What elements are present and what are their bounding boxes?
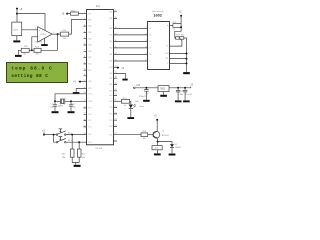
wire R15 left to ground: [18, 50, 21, 54]
wire resistor bottoms join: [72, 157, 79, 164]
ground C2: [68, 111, 75, 113]
wire LCD K to ground: [170, 63, 187, 72]
svg-text:C1: C1: [50, 104, 52, 106]
svg-text:5: 5: [84, 37, 85, 39]
wire +5 to LM35 top: [16, 9, 18, 23]
svg-text:RB1: RB1: [109, 54, 112, 56]
ground LED: [127, 117, 134, 119]
capacitor C4 100n: [176, 88, 180, 100]
capacitor C3 4700u/25: [144, 88, 149, 100]
svg-text:34: 34: [115, 53, 117, 55]
svg-text:RB3: RB3: [109, 41, 112, 43]
node R12 pot junction: [180, 26, 182, 28]
wire +5 to R11: [67, 13, 70, 15]
wire feedback vertical: [57, 34, 59, 50]
wire LCD backlight A pin: [170, 25, 173, 27]
svg-text:+12: +12: [136, 84, 141, 87]
resistor R14 base: [141, 133, 148, 137]
wire R10 vertical: [71, 135, 73, 149]
wire MCU right +5: [114, 67, 120, 69]
wire MCU VCC pin: [79, 81, 87, 83]
svg-text:1k: 1k: [124, 105, 126, 107]
svg-text:11: 11: [84, 74, 86, 76]
svg-text:RC4: RC4: [109, 120, 112, 122]
ground C4: [175, 100, 182, 102]
svg-text:12: 12: [84, 80, 86, 82]
node junction +5 rail: [16, 13, 18, 15]
switch S1: [56, 134, 58, 136]
svg-text:CIL B4: CIL B4: [95, 148, 102, 150]
potentiometer POT 10k: [176, 37, 184, 40]
capacitor C5 470u/16: [183, 88, 187, 100]
svg-text:RD0: RD0: [88, 134, 91, 136]
svg-text:temp 88.9 C: temp 88.9 C: [11, 66, 52, 72]
svg-text:23: 23: [115, 119, 117, 121]
ground C3: [143, 100, 150, 102]
wire MCU GND pin: [76, 89, 87, 92]
svg-text:R12: R12: [173, 22, 176, 24]
wire branch to S2: [54, 135, 57, 143]
svg-text:18: 18: [84, 119, 86, 121]
ground diode: [169, 154, 176, 156]
svg-text:R14: R14: [142, 131, 145, 133]
svg-text:RB5: RB5: [109, 28, 112, 30]
LED arrows: [133, 104, 136, 107]
transistor T1 BC547: [153, 131, 160, 138]
capacitor C2: [69, 101, 73, 111]
svg-text:RE0: RE0: [88, 57, 91, 59]
ground buzzer: [154, 153, 161, 155]
node +5 LCD: [180, 15, 182, 17]
node gnd column 3: [186, 62, 188, 64]
node C5 tap: [184, 87, 186, 89]
wire +5 transistor stub: [156, 120, 158, 121]
svg-text:17: 17: [84, 113, 86, 115]
svg-text:R10: R10: [62, 153, 65, 155]
wire +12 input rail: [135, 87, 158, 89]
svg-text:RC5: RC5: [109, 114, 112, 116]
wire XTAL1: [55, 94, 87, 102]
svg-text:setting 88 C: setting 88 C: [11, 73, 48, 79]
svg-text:39: 39: [115, 17, 117, 19]
svg-text:7: 7: [84, 50, 85, 52]
svg-text:21: 21: [115, 133, 117, 135]
node crystal right: [70, 100, 72, 102]
wire MCU right gnd pin: [114, 74, 126, 79]
svg-text:zum: zum: [155, 148, 159, 150]
svg-text:30: 30: [115, 77, 117, 79]
LED D2: [129, 105, 133, 109]
wire +5 output stub: [190, 86, 192, 87]
svg-text:16: 16: [84, 106, 86, 108]
wire LCD data bus D7: [114, 47, 148, 49]
ground 7805: [160, 95, 167, 97]
svg-text:OSC2: OSC2: [88, 101, 92, 103]
svg-text:D4: D4: [149, 28, 151, 30]
svg-text:RE2: RE2: [88, 70, 91, 72]
LCD pin numbers left: [145, 27, 147, 62]
ground op-amp V-: [41, 44, 48, 46]
svg-text:6: 6: [84, 43, 85, 45]
wire op-amp output: [52, 33, 60, 35]
wire +5 stub switches: [43, 132, 45, 134]
svg-text:RD5: RD5: [109, 90, 112, 92]
MCU right pin stubs: [114, 12, 118, 141]
ground R15: [15, 55, 22, 57]
svg-text:RD6: RD6: [109, 84, 112, 86]
svg-text:RC2: RC2: [88, 120, 91, 122]
svg-text:2: 2: [84, 18, 85, 20]
node +5 switches: [43, 134, 45, 136]
wire R16 to MCU ADC pin: [69, 20, 87, 35]
node gnd column 1: [186, 53, 188, 55]
svg-text:10k: 10k: [63, 38, 66, 40]
crystal Q1 4MHz: [60, 98, 64, 104]
wire collector to +5: [156, 120, 158, 132]
svg-text:VSS: VSS: [109, 73, 112, 75]
node emitter junction: [157, 141, 159, 143]
svg-text:10k: 10k: [143, 138, 146, 140]
LCD pin names right: [165, 24, 169, 65]
svg-text:11: 11: [145, 27, 147, 29]
svg-text:D1: D1: [175, 144, 177, 146]
svg-text:OSC1: OSC1: [88, 93, 92, 95]
wire LM35 output to op-amp + input: [22, 29, 38, 31]
svg-text:22p: 22p: [72, 107, 75, 109]
ground LM35: [13, 40, 20, 42]
wire LCD data bus D6: [114, 40, 148, 42]
wire LM35 ground pin: [16, 36, 18, 41]
LCD pin names: [149, 28, 151, 63]
svg-text:RC1: RC1: [88, 114, 91, 116]
svg-text:4: 4: [84, 31, 85, 33]
node VCC junction: [79, 81, 81, 83]
svg-text:BC547C: BC547C: [162, 135, 170, 137]
buzzer BZ1: [152, 146, 162, 150]
svg-text:V0: V0: [166, 46, 168, 48]
wire R15 to R17: [29, 49, 34, 51]
svg-text:LED: LED: [135, 101, 139, 103]
svg-text:10k: 10k: [36, 54, 39, 56]
regulator 7805: [158, 86, 169, 92]
wire MCU to R14 base resistor: [114, 134, 142, 136]
wire R12 to pot left terminal: [175, 27, 181, 38]
svg-text:RC6: RC6: [109, 107, 112, 109]
svg-text:1N4007: 1N4007: [175, 147, 181, 149]
node C3 tap: [145, 87, 147, 89]
svg-text:470u/16: 470u/16: [185, 94, 192, 96]
svg-text:RB4: RB4: [109, 35, 112, 37]
sensor LM35: [12, 22, 22, 35]
wire R17 to feedback vertical: [41, 49, 58, 51]
svg-text:100n: 100n: [179, 94, 183, 96]
wire op-amp V- power pin: [44, 38, 46, 44]
LCD module 1602: [148, 22, 170, 70]
svg-text:RC0: RC0: [88, 108, 91, 110]
wire to diode D1: [158, 142, 172, 144]
svg-text:3: 3: [84, 25, 85, 27]
svg-text:RC7: RC7: [109, 101, 112, 103]
wire LCD data bus D5: [114, 34, 148, 36]
svg-text:RD7: RD7: [109, 78, 112, 80]
svg-text:19: 19: [84, 125, 86, 127]
svg-text:29: 29: [115, 83, 117, 85]
svg-text:20: 20: [84, 133, 86, 135]
svg-text:13: 13: [84, 87, 86, 89]
svg-text:D7: D7: [149, 48, 151, 50]
svg-text:2: 2: [35, 35, 36, 37]
resistor R15 to ground: [21, 48, 29, 52]
svg-text:RB7: RB7: [109, 11, 112, 13]
ground C1: [52, 111, 59, 113]
svg-text:14: 14: [84, 92, 86, 94]
svg-text:35: 35: [115, 46, 117, 48]
wire buzzer to ground: [157, 150, 159, 153]
wire +5 to R12: [180, 16, 182, 24]
svg-text:D5: D5: [149, 35, 151, 37]
svg-text:POT 10k: POT 10k: [176, 35, 183, 37]
resistor R12 pulldown: [77, 149, 81, 157]
svg-text:22p: 22p: [50, 107, 53, 109]
resistor R13 LED series: [121, 99, 129, 103]
svg-text:RD3: RD3: [109, 126, 112, 128]
svg-text:6: 6: [145, 59, 146, 61]
svg-text:10k: 10k: [62, 157, 65, 159]
wire R13 to LED: [130, 101, 131, 104]
node C4 tap: [177, 87, 179, 89]
svg-text:1k: 1k: [173, 29, 175, 31]
svg-text:VSS: VSS: [88, 88, 91, 90]
wire R11 to MCU pin 1: [78, 13, 86, 15]
resistor R11 reset pullup: [70, 12, 78, 15]
node +5 transistor: [156, 119, 158, 121]
wire R14 to base: [148, 134, 154, 136]
svg-text:LM358N: LM358N: [35, 42, 43, 44]
resistor R16 series to MCU: [61, 32, 69, 36]
wire 7805 gnd: [163, 92, 165, 95]
svg-text:5mm: 5mm: [140, 106, 145, 108]
svg-text:9: 9: [84, 62, 85, 64]
svg-text:33: 33: [115, 59, 117, 61]
wire +5 rail to op-amp V+: [17, 14, 45, 31]
svg-text:RS: RS: [149, 54, 151, 56]
svg-text:32: 32: [115, 66, 117, 68]
svg-text:D6: D6: [149, 41, 151, 43]
svg-text:LM358: LM358: [40, 34, 46, 36]
wire R12 vertical: [78, 142, 80, 149]
node feedback junction: [31, 49, 33, 51]
wire crystal right segment XTAL2: [65, 100, 87, 102]
svg-text:28: 28: [115, 89, 117, 91]
svg-text:R12: R12: [82, 153, 85, 155]
svg-text:RB6: RB6: [109, 18, 112, 20]
svg-text:3: 3: [35, 28, 36, 30]
wire op-amp inverting input: [32, 37, 38, 51]
svg-text:S2.1: S2.1: [68, 140, 72, 142]
ground MCU right: [122, 79, 127, 81]
wire pot end to ground column: [184, 38, 187, 63]
svg-text:4: 4: [145, 53, 146, 55]
MCU pin numbers right: [115, 10, 117, 135]
MCU pin numbers left: [84, 12, 86, 135]
node gnd column 2: [186, 58, 188, 60]
svg-text:40: 40: [115, 10, 117, 12]
svg-text:12: 12: [145, 33, 147, 35]
wire +5 to S1: [44, 134, 56, 136]
capacitor C1: [53, 101, 57, 111]
wire S1 to MCU: [66, 134, 86, 136]
svg-text:10k: 10k: [82, 157, 85, 159]
ground C5: [183, 100, 190, 102]
svg-text:LM35: LM35: [13, 30, 19, 32]
power input +12 arrow: [133, 87, 135, 89]
svg-text:RB2: RB2: [109, 48, 112, 50]
svg-text:7805: 7805: [160, 89, 166, 91]
svg-text:25: 25: [115, 106, 117, 108]
svg-text:10k: 10k: [23, 54, 26, 56]
svg-text:4700u/25: 4700u/25: [139, 96, 147, 98]
MCU left pin stubs: [84, 26, 88, 127]
wire LED pin: [114, 100, 122, 102]
wire 7805 output rail: [169, 87, 191, 89]
svg-text:T1: T1: [162, 131, 164, 133]
svg-text:38: 38: [115, 27, 117, 29]
svg-text:1: 1: [53, 32, 54, 34]
MCU pin names right: [109, 11, 113, 136]
ground switch resistors: [74, 165, 81, 167]
svg-text:VSS: VSS: [165, 53, 168, 55]
svg-text:36: 36: [115, 40, 117, 42]
svg-text:IC1: IC1: [96, 5, 101, 8]
resistor R17 feedback: [34, 48, 41, 52]
svg-text:C2: C2: [72, 104, 74, 106]
wire LCD RS: [114, 53, 148, 55]
wire LCD RW to ground: [170, 58, 187, 60]
svg-text:1602: 1602: [153, 13, 162, 18]
resistor R12 backlight: [173, 24, 181, 28]
svg-text:RE1: RE1: [88, 64, 91, 66]
svg-text:RST: RST: [88, 13, 91, 15]
svg-text:E: E: [149, 61, 150, 63]
LCD display green: [7, 63, 68, 83]
svg-text:31: 31: [115, 72, 117, 74]
svg-text:RD4: RD4: [109, 95, 112, 97]
svg-text:S1.1: S1.1: [68, 132, 72, 134]
node R12 tap: [78, 141, 80, 143]
wire LCD E: [114, 60, 148, 62]
svg-text:24: 24: [115, 112, 117, 114]
wire LCD data bus D4: [114, 27, 148, 29]
op-amp U1 LM358: [38, 27, 53, 42]
wire S2 to MCU: [66, 141, 86, 143]
svg-text:14: 14: [145, 46, 147, 48]
node crystal left: [54, 100, 56, 102]
ground LCD: [183, 72, 190, 74]
MCU IC1: [87, 10, 114, 145]
node +5 reset pullup: [66, 13, 68, 15]
switch S2: [56, 141, 58, 143]
diode D1 1N4007: [170, 144, 174, 147]
wire emitter down: [157, 138, 159, 145]
svg-text:4MHz: 4MHz: [58, 106, 63, 108]
node op-amp output junction: [57, 33, 59, 35]
ground MCU: [73, 92, 80, 94]
svg-text:RB0: RB0: [109, 61, 112, 63]
svg-text:8: 8: [84, 56, 85, 58]
node R10 tap: [71, 134, 73, 136]
svg-text:37: 37: [115, 33, 117, 35]
svg-text:RD1: RD1: [88, 142, 91, 144]
svg-text:26: 26: [115, 100, 117, 102]
MCU pin names left: [88, 13, 92, 143]
svg-text:27: 27: [115, 94, 117, 96]
svg-text:13: 13: [145, 40, 147, 42]
svg-text:1: 1: [84, 12, 85, 14]
svg-text:RD2: RD2: [109, 134, 112, 136]
resistor R10 pulldown: [70, 149, 74, 157]
wire crystal left segment: [55, 100, 60, 102]
node +5 sensor supply: [16, 8, 18, 10]
node switch branch: [53, 134, 55, 136]
svg-text:RC3: RC3: [88, 127, 91, 129]
svg-text:15: 15: [84, 100, 86, 102]
wire LCD VSS to ground: [170, 53, 187, 55]
svg-text:10: 10: [84, 69, 86, 71]
node right +5: [117, 67, 119, 69]
svg-text:22: 22: [115, 125, 117, 127]
wire pot wiper to V0: [170, 41, 182, 46]
